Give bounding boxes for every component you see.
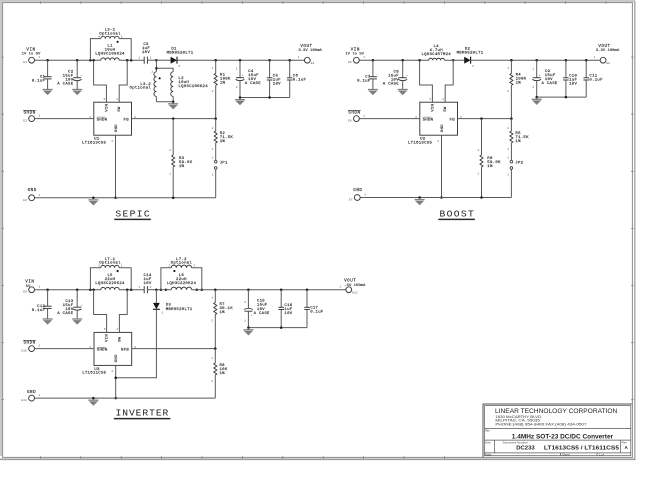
wire: JP1 to ground rail (215, 169, 217, 198)
svg-text:LQH3C100K24: LQH3C100K24 (178, 85, 208, 89)
svg-text:1: 1 (236, 67, 238, 70)
svg-text:1: 1 (364, 194, 366, 197)
svg-text:SHDN: SHDN (348, 112, 360, 116)
svg-text:1%: 1% (220, 140, 226, 144)
svg-text:1V to 5V: 1V to 5V (345, 53, 364, 57)
wire: U3 NFB pin 3 to feedback node (132, 348, 216, 350)
node GND (terminal E7) (354, 195, 360, 201)
wire: L1 left down to U1 VIN pin 5 (92, 59, 95, 62)
svg-text:10V: 10V (142, 51, 150, 55)
capacitor C10 (565, 59, 568, 62)
node VIN (INVERTER input terminal E9) (29, 287, 35, 293)
svg-text:1: 1 (363, 56, 365, 59)
capacitor C8 (401, 59, 404, 62)
wire: VIN rail E1 to L1 (35, 59, 101, 61)
title block outline (483, 404, 632, 457)
svg-text:E7: E7 (349, 199, 353, 202)
svg-text:2: 2 (236, 86, 238, 89)
svg-text:E11: E11 (21, 399, 27, 402)
svg-text:1: 1 (39, 115, 41, 118)
wire: D3 cathode down and to U3 GND (116, 309, 157, 378)
svg-text:E8: E8 (607, 62, 611, 65)
jumper JP2 (510, 160, 513, 163)
svg-text:E5: E5 (348, 61, 352, 64)
node VIN (BOOST input terminal E5) (354, 57, 360, 63)
svg-text:SW: SW (444, 106, 448, 112)
svg-text:2: 2 (507, 127, 509, 130)
svg-text:SHDN: SHDN (97, 119, 108, 123)
svg-text:GND: GND (27, 391, 36, 395)
capacitor C4 (239, 59, 242, 62)
svg-text:2: 2 (178, 65, 180, 68)
wire: ground rail (35, 197, 216, 199)
svg-text:2: 2 (111, 140, 113, 143)
svg-text:0.1uF: 0.1uF (32, 309, 46, 313)
title block document row (485, 439, 631, 441)
capacitor C12 (46, 288, 49, 291)
svg-text:0.1uF: 0.1uF (357, 79, 371, 83)
svg-text:1: 1 (244, 320, 246, 323)
svg-text:NFB: NFB (121, 349, 129, 353)
resistor R7 (214, 288, 217, 291)
svg-text:LT1613CS5 / LT1611CS5: LT1613CS5 / LT1611CS5 (544, 445, 620, 451)
svg-text:A CASE: A CASE (254, 312, 270, 316)
svg-text:1%: 1% (220, 311, 226, 315)
svg-text:E6: E6 (348, 120, 352, 123)
svg-text:LQH3C220K24: LQH3C220K24 (95, 282, 125, 286)
inductor L3-2 (optional, coupled) (155, 60, 157, 72)
node GND (terminal E11) (29, 395, 35, 401)
svg-text:2: 2 (212, 174, 214, 177)
svg-text:E9: E9 (23, 291, 27, 294)
node VOUT (BOOST output terminal E8) (600, 57, 606, 63)
svg-text:1: 1 (442, 98, 444, 101)
svg-text:PHONE:(408) 954-8400 FAX:(408: PHONE:(408) 954-8400 FAX:(408) 434-0507 (495, 423, 586, 427)
wire: E10 to U3 SHDN pin 4 (35, 348, 95, 350)
IC U1 LT1613CS5 (94, 102, 132, 135)
wire: INVERTER ground rail (35, 397, 216, 399)
resistor R8 (214, 349, 216, 363)
svg-text:1: 1 (39, 194, 41, 197)
svg-text:1%: 1% (220, 372, 226, 376)
svg-text:E12: E12 (352, 291, 358, 294)
node VOUT (INVERTER output terminal E12) (346, 287, 352, 293)
wire: U2 GND pin 2 to ground rail (441, 135, 443, 197)
inductor L7-1 (optional, coupled) (89, 288, 92, 291)
jumper JP1 (214, 160, 217, 163)
svg-text:1%: 1% (515, 140, 521, 144)
capacitor C15 (247, 288, 250, 291)
diode D3 MBR0520LT1 (155, 290, 157, 303)
svg-text:Optional: Optional (130, 86, 152, 91)
svg-text:Document Number: Document Number (503, 440, 528, 444)
svg-text:1: 1 (121, 35, 123, 38)
svg-text:Date:: Date: (485, 453, 492, 457)
wire: D1 cathode to VOUT rail (177, 59, 304, 61)
resistor R6 (481, 119, 483, 155)
ground (SEPIC rail) (88, 199, 98, 201)
svg-text:E4: E4 (311, 62, 315, 65)
svg-text:1: 1 (212, 67, 214, 70)
svg-text:4: 4 (98, 35, 100, 38)
svg-text:1: 1 (39, 394, 41, 397)
ground (below C9) (532, 98, 542, 100)
svg-text:2: 2 (150, 286, 152, 289)
inductor L4 (429, 58, 445, 60)
svg-text:1: 1 (211, 357, 213, 360)
wire: INVERTER output cap ground bus (248, 327, 307, 329)
svg-text:2: 2 (169, 149, 171, 152)
resistor R2 (215, 119, 217, 131)
wire: L4 left down to U2 VIN pin 5 (418, 59, 421, 62)
svg-text:LT1613CS5: LT1613CS5 (408, 141, 432, 145)
svg-text:2: 2 (212, 127, 214, 130)
resistor R1 (214, 59, 217, 62)
resistor R3 (172, 119, 174, 155)
svg-text:A CASE: A CASE (57, 312, 73, 316)
svg-text:GND: GND (353, 189, 362, 193)
inductor L7-2 (optional, coupled) (160, 288, 163, 291)
node VIN (SEPIC input terminal E1) (29, 57, 35, 63)
wire: VIN rail E5 to L4 (359, 59, 429, 61)
svg-text:1: 1 (116, 98, 118, 101)
svg-text:LT1613CS5: LT1613CS5 (82, 141, 106, 145)
svg-text:-5V 150mA: -5V 150mA (344, 284, 366, 288)
svg-text:MBR0520LT1: MBR0520LT1 (457, 52, 484, 56)
border zone ticks left (1, 57, 4, 400)
wire: U1 GND pin 2 to ground rail (115, 135, 117, 198)
svg-text:SHDN: SHDN (97, 349, 108, 353)
svg-text:Optional: Optional (171, 261, 193, 266)
border zone ticks right (631, 57, 634, 400)
svg-text:Size: Size (485, 440, 491, 444)
svg-text:A CASE: A CASE (57, 83, 73, 87)
inductor L3-1 (optional, coupled) (89, 59, 92, 62)
svg-text:1%: 1% (516, 82, 522, 86)
svg-text:SHDN: SHDN (23, 342, 35, 346)
svg-text:JP2: JP2 (515, 161, 523, 165)
wire: L5 left down to U3 VIN pin 5 (92, 288, 95, 291)
svg-text:JP1: JP1 (220, 161, 228, 165)
svg-text:+: + (81, 304, 83, 307)
svg-text:3: 3 (193, 265, 195, 268)
svg-text:1: 1 (121, 265, 123, 268)
wire: L5 right down to U3 SW pin 1 (126, 288, 129, 291)
svg-text:LINEAR TECHNOLOGY CORPORATION: LINEAR TECHNOLOGY CORPORATION (495, 408, 618, 415)
svg-text:MBR0520LT1: MBR0520LT1 (166, 308, 193, 312)
capacitor C14 (143, 286, 145, 293)
svg-text:Rev: Rev (622, 440, 628, 444)
node SW-C3 junction (155, 59, 158, 62)
svg-text:+: + (406, 74, 408, 77)
svg-text:1%: 1% (487, 165, 493, 169)
node SHDN (terminal E10) (29, 346, 35, 352)
node SHDN (terminal E2) (29, 116, 35, 122)
svg-text:1: 1 (212, 148, 214, 151)
svg-text:2: 2 (507, 90, 509, 93)
ground (below L2) (168, 103, 178, 105)
svg-text:5: 5 (104, 98, 106, 101)
ground (BOOST rail) (415, 199, 425, 201)
capacitor C7 (372, 59, 375, 62)
svg-text:2: 2 (211, 380, 213, 383)
resistor R4 (510, 59, 513, 62)
svg-text:1: 1 (39, 345, 41, 348)
svg-text:10V: 10V (569, 82, 577, 86)
svg-text:+: + (251, 314, 253, 317)
capacitor C16 (280, 288, 283, 291)
svg-text:0.1uF: 0.1uF (310, 310, 324, 314)
svg-text:1.4MHz SOT-23 DC/DC Converter: 1.4MHz SOT-23 DC/DC Converter (512, 433, 614, 440)
svg-text:+: + (539, 74, 541, 77)
svg-text:Optional: Optional (99, 31, 121, 36)
title block title row (485, 428, 631, 430)
svg-text:3.3V 100mA: 3.3V 100mA (596, 49, 620, 53)
svg-text:2: 2 (507, 174, 509, 177)
svg-text:SW: SW (118, 106, 122, 112)
scan edge top strip (0, 0, 635, 2)
node VOUT (SEPIC output terminal E4) (304, 57, 310, 63)
ground (below C8) (398, 89, 408, 91)
svg-text:2: 2 (212, 90, 214, 93)
node GND (terminal E3) (29, 195, 35, 201)
svg-text:3.3V 100mA: 3.3V 100mA (298, 49, 322, 53)
svg-text:1: 1 (138, 286, 140, 289)
diode D2 MBR0520LT1 (464, 57, 470, 64)
ground (below C13) (72, 318, 82, 320)
wire: output cap ground bus (240, 97, 290, 99)
resistor R5 (510, 119, 512, 131)
ground (INVERTER rail) (88, 399, 98, 401)
wire: L1 right to C3 (119, 59, 144, 61)
svg-text:2: 2 (168, 265, 170, 268)
wire: U1 FB pin 3 to feedback node (132, 118, 216, 120)
wire: BOOST ground rail (360, 197, 511, 199)
svg-text:E10: E10 (21, 350, 27, 353)
svg-text:1: 1 (507, 67, 509, 70)
svg-text:FB: FB (124, 119, 130, 123)
wire: E6 to U2 SHDN pin 4 (359, 118, 420, 120)
svg-text:1: 1 (363, 115, 365, 118)
inductor L5 (101, 287, 119, 289)
svg-text:SW: SW (118, 336, 122, 342)
ground (below C7) (368, 89, 378, 91)
svg-text:DC233: DC233 (516, 445, 535, 451)
svg-text:LQH3C220K24: LQH3C220K24 (167, 282, 197, 286)
wire: U2 FB pin 3 to feedback node (458, 118, 512, 120)
wire: E2 to U1 SHDN pin 4 (35, 118, 94, 120)
svg-text:10V: 10V (273, 82, 281, 86)
svg-text:FB: FB (450, 119, 456, 123)
svg-text:1: 1 (138, 56, 140, 59)
svg-text:BOOST: BOOST (440, 208, 475, 219)
capacitor C2 (76, 59, 79, 62)
wire: BOOST output cap ground bus (537, 96, 587, 98)
svg-text:1: 1 (532, 67, 534, 70)
svg-text:LQH3C4R7M24: LQH3C4R7M24 (421, 53, 451, 57)
ground (below C12) (43, 318, 53, 320)
wire: VIN rail E9 to L5 (35, 289, 101, 291)
svg-text:1 of: 1 of (599, 453, 604, 457)
svg-text:+: + (242, 74, 244, 77)
svg-text:1: 1 (507, 148, 509, 151)
svg-text:LT1611CS5: LT1611CS5 (82, 372, 106, 376)
svg-text:SEPIC: SEPIC (115, 208, 150, 219)
inductor L1 (101, 58, 119, 60)
svg-text:2: 2 (211, 319, 213, 322)
page edge right line (634, 1, 636, 460)
svg-text:1%: 1% (179, 165, 185, 169)
svg-text:A CASE: A CASE (542, 82, 558, 86)
node SHDN (terminal E6) (354, 116, 360, 122)
wire: L1 right down to U1 SW pin 1 (126, 59, 129, 62)
wire: JP2 to ground rail (510, 169, 512, 197)
svg-text:GND: GND (115, 124, 119, 132)
svg-text:VIN: VIN (431, 103, 435, 111)
svg-text:VIN: VIN (105, 103, 109, 111)
svg-text:2: 2 (437, 140, 439, 143)
inductor L6 (165, 288, 168, 291)
svg-text:SHDN: SHDN (23, 112, 35, 116)
svg-text:2: 2 (151, 70, 153, 73)
svg-text:2: 2 (244, 301, 246, 304)
svg-text:0.1uF: 0.1uF (293, 78, 307, 82)
svg-text:5: 5 (430, 98, 432, 101)
svg-text:Title: Title (484, 429, 490, 433)
svg-text:0.1uF: 0.1uF (589, 78, 603, 82)
node C14-D3 junction (155, 288, 158, 291)
svg-text:1: 1 (477, 173, 479, 176)
svg-text:1: 1 (161, 311, 163, 314)
svg-text:GND: GND (115, 354, 119, 362)
ground (below C1) (43, 89, 53, 91)
svg-text:1: 1 (212, 156, 214, 159)
capacitor C1 (46, 59, 49, 62)
svg-text:GND: GND (441, 124, 445, 132)
border zone ticks bottom (40, 456, 444, 459)
svg-text:1: 1 (211, 296, 213, 299)
svg-text:LQH3C100K24: LQH3C100K24 (95, 52, 125, 56)
svg-text:5: 5 (104, 328, 106, 331)
svg-text:A CASE: A CASE (245, 82, 261, 86)
svg-text:1: 1 (507, 156, 509, 159)
scan edge left strip (0, 0, 2, 456)
svg-text:E1: E1 (23, 61, 27, 64)
title block date row (485, 452, 631, 454)
capacitor C5 (268, 59, 271, 62)
capacitor C3 (143, 57, 145, 64)
border zone ticks top (40, 1, 606, 4)
svg-text:0.1uF: 0.1uF (32, 79, 46, 83)
svg-text:E2: E2 (23, 120, 27, 123)
svg-text:1: 1 (116, 328, 118, 331)
wire: L5 right to C14 (119, 289, 144, 291)
inductor L2 (156, 68, 173, 72)
svg-text:1: 1 (39, 286, 41, 289)
IC U3 LT1611CS5 (94, 332, 132, 365)
capacitor C13 (76, 288, 79, 291)
svg-text:GND: GND (28, 189, 37, 193)
capacitor C11 (585, 59, 588, 62)
capacitor C6 (288, 59, 291, 62)
svg-text:INVERTER: INVERTER (116, 408, 169, 419)
ground (below C2) (72, 89, 82, 91)
svg-text:+: + (81, 74, 83, 77)
svg-text:5V: 5V (26, 285, 31, 289)
capacitor C9 (535, 59, 538, 62)
wire: L4 right down to U2 SW pin 1 (452, 59, 455, 62)
page edge bottom line (0, 458, 636, 460)
diode D1 MBR0520LT1 (156, 59, 170, 61)
wire: D2 cathode to VOUT rail (471, 59, 601, 61)
wire: L6 to VOUT rail (192, 289, 346, 291)
svg-text:2: 2 (472, 65, 474, 68)
svg-text:2: 2 (532, 86, 534, 89)
wire: L4 to D2 anode (444, 59, 464, 61)
svg-text:1: 1 (298, 56, 300, 59)
wire: U3 GND pin 2 to ground rail (115, 365, 117, 398)
svg-text:VIN: VIN (106, 334, 110, 342)
ground (below C15) (243, 329, 253, 331)
svg-text:2: 2 (111, 370, 113, 373)
svg-text:2: 2 (98, 265, 100, 268)
svg-text:SHDN: SHDN (423, 119, 434, 123)
svg-text:1: 1 (339, 285, 341, 288)
svg-text:2: 2 (477, 149, 479, 152)
svg-text:Optional: Optional (99, 261, 121, 266)
svg-text:1: 1 (594, 56, 596, 59)
IC U2 LT1613CS5 (420, 102, 458, 135)
svg-text:1%: 1% (220, 82, 226, 86)
svg-text:MBR0520LT1: MBR0520LT1 (167, 52, 194, 56)
svg-text:A CASE: A CASE (383, 83, 399, 87)
svg-text:1: 1 (39, 56, 41, 59)
capacitor C17 (306, 288, 309, 291)
ground (below C4) (235, 99, 245, 101)
svg-text:1: 1 (169, 173, 171, 176)
svg-text:10V: 10V (284, 312, 292, 316)
svg-text:E3: E3 (23, 199, 27, 202)
svg-text:2: 2 (150, 56, 152, 59)
svg-text:Sheet: Sheet (562, 453, 570, 457)
